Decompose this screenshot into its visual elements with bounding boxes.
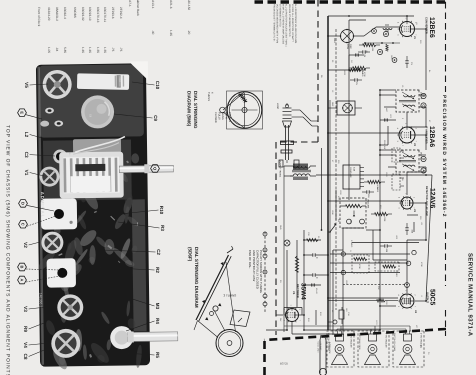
resistor R1 [359, 43, 380, 51]
callout V3 [23, 306, 55, 312]
speaker SP2 [358, 331, 389, 367]
wire right side drop [304, 329, 380, 331]
filter capacitor C20B [304, 273, 328, 279]
fuse resistor cluster [328, 307, 348, 324]
capacitor C30 [356, 53, 358, 56]
callout M3 [91, 286, 160, 310]
callout Q [151, 165, 160, 173]
filter resistor R8 [295, 256, 298, 272]
svg-text:1.55: 1.55 [96, 47, 100, 53]
wire IF rail [406, 112, 408, 127]
svg-text:V2: V2 [23, 242, 28, 248]
callout C [19, 216, 56, 228]
svg-text:SHOWN: SHOWN [228, 112, 231, 122]
svg-text:63C170-11: 63C170-11 [103, 7, 107, 22]
svg-text:DIAGRAM (5M6): DIAGRAM (5M6) [187, 91, 192, 127]
svg-text:R10: R10 [159, 206, 164, 215]
tube label 12BA6 [425, 126, 436, 147]
svg-text:35W4: 35W4 [300, 283, 307, 300]
photo tube V2 [41, 231, 63, 253]
callout V5 [24, 82, 48, 88]
svg-text:412A4-20: 412A4-20 [47, 7, 51, 21]
svg-text:ADMIRAL: ADMIRAL [40, 192, 45, 219]
svg-text:1.65: 1.65 [81, 47, 85, 53]
svg-text:A: A [20, 279, 25, 282]
wire 12BA6 cathode [328, 132, 399, 134]
alignment point Q [383, 31, 388, 36]
svg-text:98A30-152: 98A30-152 [187, 0, 191, 10]
photo IF transformer 1 [41, 198, 77, 229]
wire coupling vertical 3 [330, 262, 409, 264]
callout C8 [23, 348, 49, 360]
svg-text:1.55: 1.55 [103, 47, 107, 53]
svg-text:C: C [21, 223, 26, 226]
svg-text:63C93-92: 63C93-92 [81, 7, 85, 21]
svg-text:.20: .20 [187, 30, 191, 35]
speaker SP3 [327, 331, 354, 367]
svg-text:B: B [20, 266, 25, 269]
resistor R21 [307, 239, 318, 242]
alignment point E [377, 49, 382, 54]
svg-text:12BE6: 12BE6 [428, 17, 435, 38]
wire AVC line [349, 20, 366, 200]
svg-text:TURNS: TURNS [207, 92, 210, 101]
pilot lamp M1 [284, 240, 290, 246]
rectifier wiring [276, 314, 304, 316]
border bottom segment [275, 142, 277, 335]
svg-text:ALI: ALI [68, 152, 71, 155]
svg-text:V4: V4 [23, 342, 28, 348]
resistor R9 boxed [375, 262, 399, 271]
photo wiring harness [67, 78, 126, 221]
wire 50C5 cathode [328, 297, 398, 299]
dial 5D6F tuning cap outline [230, 310, 250, 327]
wire antenna drop [328, 16, 414, 22]
capacitor C3 [405, 56, 413, 68]
dial 5D6F cords [194, 262, 236, 338]
callout C9 [114, 114, 158, 121]
dial 5D6F caption [188, 247, 200, 308]
svg-text:63C62-4: 63C62-4 [63, 7, 67, 19]
dial 5M6 spring [238, 92, 247, 102]
photo coil L2 [53, 149, 67, 163]
dial 5D6F cord line with pulleys [263, 232, 267, 312]
svg-text:Front of Clock: Front of Clock [37, 7, 41, 27]
capacitor C9 [362, 190, 374, 198]
photo IF transformer 2 [47, 258, 76, 287]
svg-text:R5: R5 [155, 352, 160, 358]
svg-text:END OF DIAL.: END OF DIAL. [248, 250, 252, 269]
svg-text:98A60D-2: 98A60D-2 [55, 7, 59, 21]
wire power line 2 [296, 240, 298, 307]
wire power line 1 [303, 230, 305, 330]
precision wired system border left (thick dashed) [252, 0, 445, 3]
capacitor C15 [405, 223, 413, 235]
capacitor pack C27 [392, 174, 404, 190]
wire coupling to 50C5 grid [406, 240, 408, 293]
svg-text:+: + [315, 257, 319, 259]
photo tube V4 [51, 329, 80, 358]
callout C10 [132, 81, 160, 90]
svg-text:R4: R4 [155, 318, 160, 324]
svg-text:B3725: B3725 [280, 362, 289, 366]
callout R5 [124, 352, 160, 358]
callout C2 [102, 249, 161, 255]
tube label 35W4 [292, 283, 307, 300]
svg-text:FULLY: FULLY [218, 112, 221, 120]
callout B [18, 263, 59, 271]
wire B+ taps [366, 150, 396, 306]
callout D [19, 200, 54, 211]
photo tuning capacitor [59, 139, 124, 199]
wire heater string [335, 29, 337, 310]
callout R2 [96, 267, 160, 273]
svg-text:C9: C9 [153, 115, 158, 121]
capacitor C11 [380, 244, 392, 252]
svg-text:.75: .75 [111, 47, 115, 52]
svg-text:413A13-1: 413A13-1 [151, 0, 155, 9]
svg-text:E: E [20, 111, 25, 114]
dial 5M6 text [207, 92, 231, 123]
svg-text:R3: R3 [160, 225, 165, 231]
callout C3 [24, 152, 55, 158]
dial 5D6F mid pulleys [205, 303, 221, 320]
svg-text:63C93-10: 63C93-10 [88, 7, 92, 21]
precision wired system border right (thick dashed) [264, 329, 446, 340]
dial stringing diagram 5M6 gang outline [227, 91, 263, 129]
wire power line 3 [266, 250, 287, 330]
svg-text:GANG: GANG [221, 112, 224, 120]
svg-text:D: D [21, 202, 26, 205]
callout R9 [23, 323, 44, 332]
output transformer T4 [279, 160, 317, 332]
capacitor C4 [358, 50, 370, 57]
wire AVC dashed feed [343, 284, 408, 286]
filter capacitor C20A [304, 253, 328, 259]
tube label 12BE6 [425, 17, 436, 38]
precision wired system border top (thin dashed with title) [439, 2, 447, 336]
svg-text:63C170-13: 63C170-13 [96, 7, 100, 23]
wire het line [321, 148, 323, 231]
svg-text:DIAL STRINGING: DIAL STRINGING [193, 91, 198, 129]
svg-text:Q: Q [153, 167, 158, 170]
wire 12AV6 plate [407, 203, 426, 240]
wire coupling vertical 2 [330, 253, 410, 255]
service manual header [467, 253, 474, 337]
svg-text:.75: .75 [119, 47, 123, 52]
border step down [276, 141, 318, 143]
svg-text:C8: C8 [23, 354, 28, 360]
on-off switch S1 [328, 219, 340, 233]
svg-text:5.85: 5.85 [63, 47, 67, 53]
print code [280, 362, 289, 366]
resistor R17 cathode [328, 299, 398, 302]
more value labels [315, 50, 430, 355]
callout R4 [126, 318, 160, 331]
svg-text:R9: R9 [23, 326, 28, 332]
dial 5D6F note [248, 250, 263, 294]
svg-text:12BA6: 12BA6 [428, 126, 435, 147]
junction dots [286, 15, 427, 331]
wire AF line [373, 230, 407, 260]
tube V1 12BE6 [397, 18, 417, 40]
photo tube V1 [39, 166, 59, 186]
wire speaker leads [284, 326, 410, 331]
parts list [37, 0, 191, 53]
dial 5M6 cord [220, 92, 245, 128]
tube label 12AV6 [425, 186, 436, 216]
svg-text:DETECTOR-AVC-AF AMP: DETECTOR-AVC-AF AMP [425, 186, 428, 216]
svg-text:50C5: 50C5 [429, 289, 436, 305]
svg-text:1.05: 1.05 [47, 47, 51, 53]
svg-text:C10: C10 [155, 81, 160, 90]
callout A [18, 276, 60, 284]
wire 12BA6 plate [415, 135, 426, 150]
callout V4 [23, 342, 49, 348]
photo tube V3 [57, 294, 83, 320]
wire 12AV6 cathode [328, 200, 401, 202]
oscillator coil T1 [328, 27, 376, 50]
svg-text:KNOBS: KNOBS [73, 7, 77, 18]
svg-text:V5: V5 [292, 291, 295, 295]
capacitor C5 [350, 78, 362, 85]
wire top rail converter plate [415, 29, 426, 90]
IF transformer T2 (1st IF) [380, 90, 426, 127]
svg-text:.40: .40 [151, 30, 155, 35]
IF transformer T3 (2nd IF) [380, 150, 426, 172]
svg-text:RECTIFIER: RECTIFIER [296, 284, 299, 298]
speaker SP1 [393, 331, 424, 367]
capacitor pack C26 [392, 148, 404, 162]
terminal rings [341, 250, 416, 274]
svg-text:AND POINTER AT LOW: AND POINTER AT LOW [252, 250, 256, 281]
wire coupling vertical 4 [330, 272, 400, 274]
oscillator feedback coil L3 [364, 25, 400, 62]
B- bus [328, 16, 330, 330]
resistor R7 boxed [352, 255, 369, 273]
precision wired system border bottom right (thick dashed) [263, 341, 266, 375]
wire detector to grid [406, 172, 408, 195]
svg-text:.04: .04 [55, 47, 59, 52]
capacitor C17 hanging [279, 160, 299, 167]
svg-text:1.65: 1.65 [169, 30, 173, 36]
wire misc stubs [303, 55, 418, 325]
alignment point C [421, 103, 426, 108]
dial 5M6 caption [187, 91, 199, 129]
svg-text:M3: M3 [155, 303, 160, 310]
value labels [279, 22, 431, 325]
svg-text:409A21-6: 409A21-6 [169, 0, 173, 9]
tube V3 12AV6 [398, 193, 416, 212]
wire 50C5 plate to output transformer [316, 175, 432, 301]
photo tube V5 (rectifier) [42, 70, 71, 99]
dial 5D6F pulley [216, 330, 243, 357]
callout V1 [24, 170, 44, 176]
svg-text:2T293-6: 2T293-6 [111, 7, 115, 19]
wire coupling vertical 1 [352, 242, 419, 244]
resistor R5 [364, 180, 385, 192]
photo tuning shaft Q [119, 164, 173, 174]
callout R10 [120, 206, 164, 215]
power cord and plug [319, 335, 331, 375]
tube V5 35W4 [282, 305, 335, 334]
svg-text:2T292-4: 2T292-4 [119, 7, 123, 19]
callout E [18, 109, 42, 119]
svg-text:PULLEY SHOWN WITH TUNING: PULLEY SHOWN WITH TUNING [259, 250, 263, 294]
speaker note [317, 342, 322, 354]
callout V2 [23, 242, 40, 248]
svg-text:WITH: WITH [225, 112, 228, 119]
svg-text:C3: C3 [24, 152, 29, 158]
resistor R20 [349, 69, 361, 72]
dial stringing diagram 5M6 pulley [227, 92, 262, 128]
photo capacitor C9 [81, 95, 114, 128]
capacitor C32 [312, 283, 314, 286]
svg-text:L2: L2 [24, 132, 29, 138]
photo chassis stamp [39, 293, 43, 308]
svg-text:# Cabinet Back: # Cabinet Back [136, 0, 140, 16]
antenna coil T5 [328, 101, 362, 115]
svg-text:V5: V5 [24, 82, 29, 88]
wire loop leads [300, 110, 318, 126]
capacitor C31 [385, 118, 387, 121]
alignment point B [421, 93, 426, 98]
svg-text:V3: V3 [23, 306, 28, 312]
svg-text:781A7-1: 781A7-1 [128, 0, 132, 7]
wire 12BE6 cathode [376, 26, 399, 28]
couplate PC1 [343, 165, 364, 189]
volume control R11 with switch [340, 198, 370, 228]
wire B+ rail [380, 90, 396, 330]
svg-text:CLOSED: CLOSED [214, 112, 217, 123]
alignment point D [421, 156, 426, 161]
alignment point A [421, 168, 426, 173]
svg-text:CAPACITOR FULLY CLOSED: CAPACITOR FULLY CLOSED [255, 250, 259, 289]
photo volume control and shaft [110, 325, 178, 349]
resistor R2 [349, 66, 370, 76]
svg-text:1.65: 1.65 [88, 47, 92, 53]
tube V2 12BA6 [396, 123, 417, 146]
wire output B+ [333, 250, 343, 335]
chassis photo (top view) [33, 61, 152, 371]
svg-text:DIAL STRINGING DIAGRAM: DIAL STRINGING DIAGRAM [194, 247, 199, 308]
svg-text:V1: V1 [24, 170, 29, 176]
svg-text:+: + [315, 277, 319, 279]
svg-text:(5D6F): (5D6F) [188, 247, 193, 262]
tube V4 50C5 [397, 283, 417, 314]
dial 5D6F 3 turns label [224, 294, 237, 298]
callout L2 [24, 132, 46, 139]
svg-text:C2: C2 [156, 249, 161, 255]
wire B+ screen line [343, 228, 364, 335]
svg-text:12AV6: 12AV6 [429, 188, 436, 208]
resistor R6 [371, 212, 392, 222]
svg-text:E: E [378, 51, 382, 53]
precision wired system border bottom left (thin dashed) [317, 0, 319, 142]
callout R3 [118, 222, 165, 231]
schematic notes [272, 4, 297, 47]
svg-text:R2: R2 [155, 267, 160, 273]
svg-text:SERVICE MANUAL 9371-A: SERVICE MANUAL 9371-A [467, 253, 474, 337]
loop antenna L1 (loopstick) [276, 103, 303, 163]
photo caption [5, 125, 11, 375]
tube label 50C5 [426, 289, 436, 305]
photo socket rivets [40, 107, 63, 126]
photo electrolytic C10 [77, 73, 130, 91]
svg-text:3 TURNS: 3 TURNS [224, 294, 237, 298]
photo ADMIRAL stamp [40, 192, 45, 219]
svg-text:14E366-2: 14E366-2 [39, 293, 43, 308]
dial 5D6F pointer bar [196, 246, 233, 321]
